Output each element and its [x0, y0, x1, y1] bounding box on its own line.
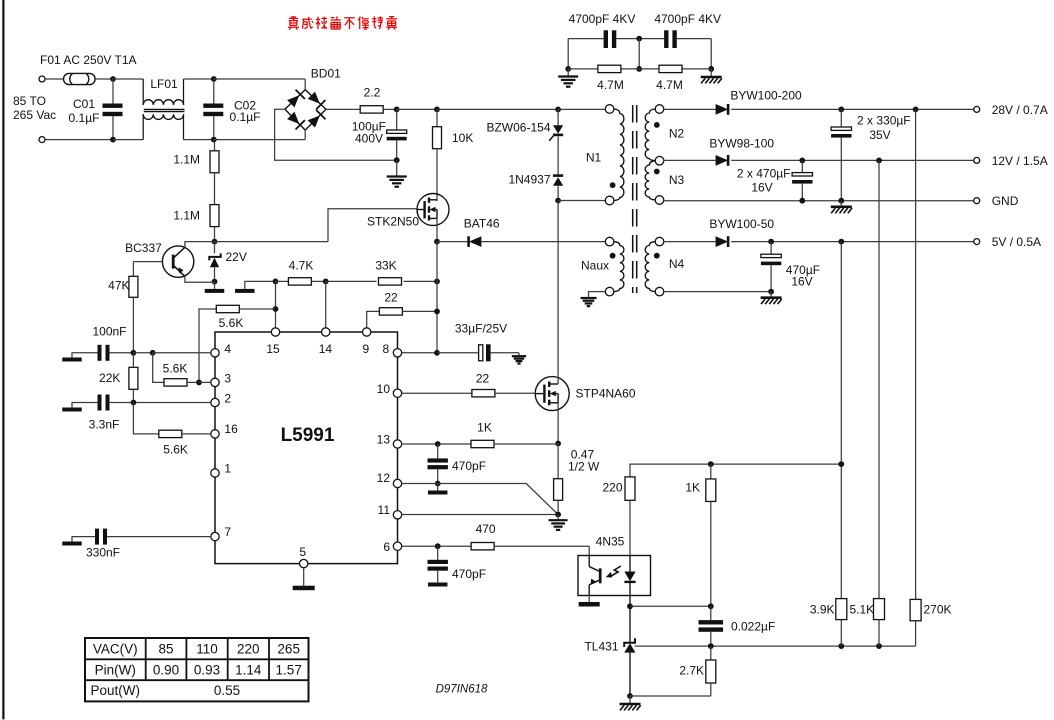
svg-text:5.6K: 5.6K: [219, 316, 244, 330]
resistor 1K sense: [402, 440, 558, 447]
wire: [304, 130, 306, 140]
node junction: [838, 643, 844, 649]
svg-text:1N4937: 1N4937: [508, 173, 550, 187]
ground: [512, 353, 526, 364]
label 22 sync: [384, 291, 398, 305]
capacitor 0.022uF: [699, 606, 724, 646]
resistor 47K: [129, 262, 138, 353]
label D97IN618: [436, 684, 488, 696]
svg-text:12V / 1.5A: 12V / 1.5A: [992, 154, 1048, 168]
label 5.6K pin16: [163, 443, 188, 457]
node junction: [434, 350, 440, 356]
pin 5: [299, 545, 308, 568]
svg-text:330nF: 330nF: [86, 546, 120, 560]
svg-text:15: 15: [266, 342, 280, 356]
label BYW98-100: [709, 137, 774, 151]
svg-text:470: 470: [476, 522, 496, 536]
phase dot N2: [654, 122, 660, 128]
resistor 33K: [379, 278, 438, 285]
wire: [304, 79, 306, 90]
wire: [275, 109, 397, 160]
node terminal N2/N3: [655, 156, 664, 165]
label 4700pF 4KV right: [654, 12, 721, 26]
wire: [437, 108, 558, 110]
svg-text:N3: N3: [669, 173, 685, 187]
pin 16: [211, 422, 238, 438]
resistor 2.7K: [706, 646, 716, 696]
node junction: [110, 76, 116, 82]
svg-text:1K: 1K: [477, 421, 492, 435]
wire pin12: [402, 484, 558, 515]
node junction: [799, 198, 805, 204]
label 22K: [99, 371, 120, 385]
wire: [630, 464, 841, 477]
wire: [568, 38, 603, 40]
svg-text:L5991: L5991: [281, 425, 335, 446]
wire: [638, 39, 640, 69]
label C02: [230, 99, 261, 125]
node junction: [110, 137, 116, 143]
label 3.3nF: [89, 418, 120, 432]
label 5.6K pin3: [163, 362, 188, 376]
svg-text:4: 4: [224, 342, 231, 356]
node junction: [838, 198, 844, 204]
label 22V: [226, 250, 247, 264]
svg-text:C01: C01: [73, 97, 95, 111]
fuse F01: [64, 73, 96, 84]
wire source: [557, 403, 559, 444]
resistor 270K: [910, 599, 921, 646]
label 10K: [452, 131, 473, 145]
optocoupler 4N35 box: [578, 556, 651, 596]
wire: [664, 159, 716, 161]
node junction: [876, 158, 882, 164]
ground bar: [235, 281, 275, 293]
resistor 10K: [433, 109, 442, 201]
svg-text:85: 85: [158, 641, 173, 656]
svg-text:BD01: BD01: [311, 67, 341, 81]
wire: [616, 38, 664, 40]
capacitor 2x330uF 35V: [831, 109, 851, 200]
svg-text:8: 8: [382, 342, 389, 356]
border frame left: [2, 0, 4, 719]
node junction: [435, 481, 441, 487]
capacitor C02: [203, 79, 223, 140]
label N4: [669, 257, 685, 271]
wire: [402, 352, 437, 354]
svg-text:22V: 22V: [226, 250, 247, 264]
svg-text:BC337: BC337: [125, 241, 162, 255]
node junction: [323, 279, 329, 285]
capacitor 330nF: [72, 529, 211, 545]
pin 2: [211, 392, 232, 407]
wire feedback: [635, 645, 916, 647]
svg-text:0.1µF: 0.1µF: [69, 111, 100, 125]
label 4N35: [596, 535, 625, 549]
wire 28V sense: [915, 109, 917, 599]
wire: [185, 241, 328, 243]
pin 1: [211, 462, 232, 478]
wire: [326, 108, 360, 110]
ground bar opto: [579, 596, 600, 607]
wire GND rail: [664, 200, 974, 202]
label 0.022uF: [731, 620, 775, 634]
terminal 28V: [974, 106, 980, 112]
svg-text:10K: 10K: [452, 131, 473, 145]
svg-text:2 x 470µF: 2 x 470µF: [737, 167, 791, 181]
node junction: [627, 603, 633, 609]
label STK2N50: [367, 215, 419, 229]
label BZW06-154: [486, 121, 550, 135]
zener 22V: [209, 242, 220, 282]
resistor 1.1M upper: [210, 140, 219, 205]
wire pin11: [402, 514, 558, 516]
wire: [567, 39, 569, 69]
label BYW100-50: [709, 217, 774, 231]
svg-text:1.14: 1.14: [235, 662, 262, 677]
opto light arrow: [606, 566, 621, 577]
svg-text:VAC(V): VAC(V): [93, 641, 138, 656]
svg-text:4700pF 4KV: 4700pF 4KV: [654, 12, 721, 26]
svg-text:LF01: LF01: [150, 77, 178, 91]
ground: [549, 515, 568, 530]
wire: [153, 352, 211, 354]
node junction: [636, 36, 642, 42]
transformer primary N1: [605, 105, 624, 205]
transistor STP4NA60: [535, 377, 569, 411]
resistor 5.6K pin16: [133, 403, 210, 438]
pin 9: [362, 328, 370, 356]
label 33K: [375, 259, 396, 273]
resistor 1K fb: [706, 464, 716, 606]
svg-text:400V: 400V: [355, 132, 383, 146]
resistor 3.9K: [836, 599, 847, 647]
wire: [397, 108, 437, 110]
capacitor 470uF 16V: [761, 242, 781, 292]
svg-text:1K: 1K: [685, 481, 700, 495]
regulator TL431: [624, 606, 635, 696]
svg-text:470pF: 470pF: [452, 567, 486, 581]
wire: [664, 241, 716, 243]
wire: [199, 381, 211, 383]
svg-text:265: 265: [277, 641, 300, 656]
ground bar: [205, 282, 225, 293]
diode BYW100-200: [716, 104, 729, 115]
node junction: [212, 279, 218, 285]
node junction: [708, 461, 714, 467]
pin 6: [383, 540, 401, 554]
label 1.1M lower: [173, 209, 200, 223]
ground Naux: [581, 292, 606, 307]
svg-text:BYW98-100: BYW98-100: [709, 137, 774, 151]
svg-text:Pin(W): Pin(W): [95, 662, 136, 677]
wire: [710, 39, 712, 69]
transistor BC337: [162, 242, 214, 283]
wire pin14 drop: [325, 281, 327, 327]
wire base: [133, 261, 162, 263]
wire: [383, 108, 397, 110]
svg-text:16V: 16V: [791, 275, 812, 289]
capacitor 3.3nF: [72, 395, 211, 411]
label 5.6K upper: [219, 316, 244, 330]
svg-text:14: 14: [319, 342, 333, 356]
node junction: [636, 66, 642, 72]
red watermark text: [288, 16, 397, 30]
node junction: [565, 66, 571, 72]
wire: [437, 241, 469, 243]
label Naux: [581, 259, 609, 273]
svg-text:3.9K: 3.9K: [810, 603, 835, 617]
node junction: [434, 107, 440, 113]
svg-text:N4: N4: [669, 257, 685, 271]
resistor 2.2: [360, 106, 383, 113]
capacitor 100nF: [72, 345, 133, 361]
ground earth: [558, 69, 578, 87]
label 470pF upper: [452, 459, 486, 473]
svg-text:0.022µF: 0.022µF: [731, 620, 775, 634]
label 4700pF 4KV left: [569, 12, 636, 26]
pin 7: [211, 525, 232, 541]
svg-text:4N35: 4N35: [596, 535, 625, 549]
svg-text:Naux: Naux: [581, 259, 609, 273]
node junction: [131, 400, 137, 406]
svg-text:11: 11: [378, 503, 391, 517]
resistor 4.7M right: [659, 65, 682, 72]
label 0.47: [568, 448, 600, 474]
ground: [387, 160, 407, 187]
label 1.1M upper: [173, 153, 200, 167]
svg-text:22K: 22K: [99, 371, 120, 385]
svg-text:STK2N50: STK2N50: [367, 215, 419, 229]
svg-text:12: 12: [377, 471, 391, 485]
svg-text:5V / 0.5A: 5V / 0.5A: [992, 235, 1041, 249]
label STP4NA60: [576, 387, 636, 401]
ground bar: [428, 484, 448, 495]
svg-text:0.1µF: 0.1µF: [230, 110, 261, 124]
svg-text:13: 13: [377, 433, 391, 447]
terminal 12V: [974, 157, 980, 163]
node junction: [555, 198, 561, 204]
label L5991: [281, 425, 335, 446]
wire source: [436, 217, 438, 242]
label 4.7M left: [597, 78, 624, 92]
svg-text:1.57: 1.57: [276, 662, 302, 677]
wire: [558, 200, 605, 202]
wire 5V sense: [840, 242, 842, 599]
label 1K sense: [477, 421, 492, 435]
resistor 1.1M lower: [210, 205, 219, 242]
svg-text:35V: 35V: [869, 128, 890, 142]
ground chassis TL431: [620, 696, 641, 710]
wire: [557, 201, 559, 377]
resistor 5.1K: [874, 599, 885, 647]
transformer secondary N4: [645, 237, 664, 296]
node junction: [273, 306, 279, 312]
svg-text:33K: 33K: [375, 259, 396, 273]
wire: [45, 78, 63, 80]
capacitor 470pF upper: [428, 444, 448, 484]
svg-text:3.3nF: 3.3nF: [89, 418, 120, 432]
node junction: [394, 107, 400, 113]
svg-text:5.6K: 5.6K: [163, 443, 188, 457]
label 2x470uF: [737, 167, 791, 195]
wire: [664, 291, 771, 293]
node junction: [838, 107, 844, 113]
LED 4N35: [624, 556, 635, 607]
wire: [326, 280, 377, 282]
node junction: [555, 107, 561, 113]
label 330nF: [86, 546, 120, 560]
node junction: [434, 279, 440, 285]
transil BZW06-154: [549, 109, 563, 174]
label TL431: [584, 640, 618, 654]
svg-text:4.7M: 4.7M: [597, 78, 624, 92]
wire: [568, 68, 711, 70]
node junction: [434, 309, 440, 315]
wire pin15 drop: [275, 281, 277, 327]
svg-text:33µF/25V: 33µF/25V: [455, 322, 507, 336]
label 470uF: [786, 263, 820, 289]
label 470pF lower: [452, 567, 486, 581]
svg-text:D97IN618: D97IN618: [436, 684, 488, 696]
svg-text:N2: N2: [669, 127, 685, 141]
wire drain: [557, 377, 559, 384]
svg-text:9: 9: [362, 342, 369, 356]
resistor 22 sync: [367, 308, 437, 328]
wire: [731, 241, 974, 243]
wire: [630, 605, 711, 607]
svg-text:0.55: 0.55: [214, 683, 240, 698]
svg-text:10: 10: [377, 382, 391, 396]
svg-text:GND: GND: [992, 194, 1019, 208]
terminal 5V: [974, 239, 980, 245]
node junction: [876, 643, 882, 649]
wire: [664, 108, 716, 110]
label 4.7M right: [656, 78, 683, 92]
transistor STK2N50: [417, 194, 450, 226]
svg-text:2.2: 2.2: [364, 86, 381, 100]
wire 12V sense: [878, 160, 880, 598]
node junction: [150, 350, 156, 356]
label BD01: [311, 67, 341, 81]
wire: [731, 159, 974, 161]
node junction: [273, 279, 279, 285]
svg-text:265 Vac: 265 Vac: [13, 108, 56, 122]
capacitor 2x470uF 16V: [792, 160, 812, 200]
label C01: [69, 97, 100, 125]
svg-text:270K: 270K: [924, 603, 952, 617]
node junction: [708, 66, 714, 72]
svg-text:BYW100-200: BYW100-200: [730, 89, 802, 103]
pin 4: [211, 342, 232, 357]
node junction: [838, 461, 844, 467]
phase dot Naux: [610, 253, 616, 259]
wire: [630, 695, 711, 697]
wire: [113, 78, 143, 80]
svg-text:BAT46: BAT46: [464, 217, 500, 231]
node junction: [211, 137, 217, 143]
terminal AC input bottom: [39, 137, 45, 143]
pin 11: [378, 503, 402, 519]
phase dot N4: [654, 253, 660, 259]
pin 10: [377, 382, 402, 397]
svg-text:85 TO: 85 TO: [13, 94, 46, 108]
pin 3: [211, 372, 232, 387]
capacitor C01: [103, 79, 123, 140]
svg-text:0.93: 0.93: [194, 662, 220, 677]
label 270K: [924, 603, 952, 617]
node junction: [768, 239, 774, 245]
wire: [184, 139, 214, 141]
resistor 22K: [129, 353, 138, 403]
label 1N4937: [508, 173, 550, 187]
resistor 5.6K pin3: [153, 353, 199, 386]
label fuse F01: [40, 53, 137, 67]
resistor 5.6K upper: [199, 305, 276, 382]
label AC range: [13, 94, 56, 122]
wire: [677, 38, 711, 40]
ground bar: [428, 583, 448, 587]
svg-text:F01 AC 250V T1A: F01 AC 250V T1A: [40, 53, 137, 67]
svg-text:220: 220: [602, 481, 622, 495]
wire: [214, 78, 305, 80]
node junction: [211, 76, 217, 82]
label BYW100-200: [730, 89, 802, 103]
wire: [558, 108, 605, 110]
diode BYW98-100: [716, 155, 729, 166]
wire: [133, 352, 152, 354]
node junction: [708, 643, 714, 649]
pin 13: [377, 433, 402, 449]
svg-text:110: 110: [196, 641, 218, 656]
diode BAT46: [469, 236, 482, 247]
label 220: [602, 481, 622, 495]
wire gate: [328, 209, 417, 242]
node junction: [394, 157, 400, 163]
IC L5991 box: [215, 332, 398, 564]
wire: [95, 78, 113, 80]
label 4.7K: [289, 259, 314, 273]
label N2: [669, 127, 685, 141]
resistor 220: [625, 477, 635, 556]
svg-text:470pF: 470pF: [452, 459, 486, 473]
wire: [436, 242, 438, 353]
svg-text:16V: 16V: [751, 181, 772, 195]
wire: [214, 139, 305, 141]
wire: [184, 78, 214, 80]
svg-text:BYW100-50: BYW100-50: [709, 217, 774, 231]
svg-text:STP4NA60: STP4NA60: [576, 387, 636, 401]
terminal AC input top: [39, 76, 45, 82]
node junction: [435, 441, 441, 447]
svg-text:3: 3: [224, 372, 231, 386]
svg-text:4.7K: 4.7K: [289, 259, 314, 273]
label BC337: [125, 241, 162, 255]
pin 8: [382, 342, 401, 357]
svg-text:22: 22: [476, 372, 490, 386]
node junction: [435, 543, 441, 549]
ground pin5: [293, 568, 315, 590]
svg-text:1: 1: [224, 462, 231, 476]
svg-text:TL431: TL431: [584, 640, 618, 654]
resistor 4.7K: [276, 278, 326, 285]
svg-text:100nF: 100nF: [92, 325, 126, 339]
terminal GND: [974, 198, 980, 204]
label 2.2: [364, 86, 381, 100]
node junction: [627, 693, 633, 699]
ground bar: [62, 408, 82, 412]
svg-text:1.1M: 1.1M: [173, 209, 200, 223]
